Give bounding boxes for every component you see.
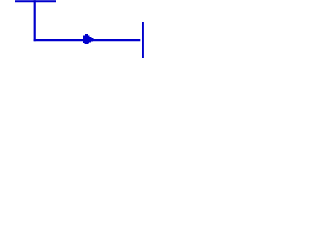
- node terminal vertical line right: [142, 22, 144, 58]
- wire top horizontal: [15, 0, 56, 2]
- wire bottom horizontal: [34, 39, 141, 41]
- wire vertical from T junction: [34, 0, 36, 41]
- arrowhead (signal flow arrow): [83, 34, 98, 44]
